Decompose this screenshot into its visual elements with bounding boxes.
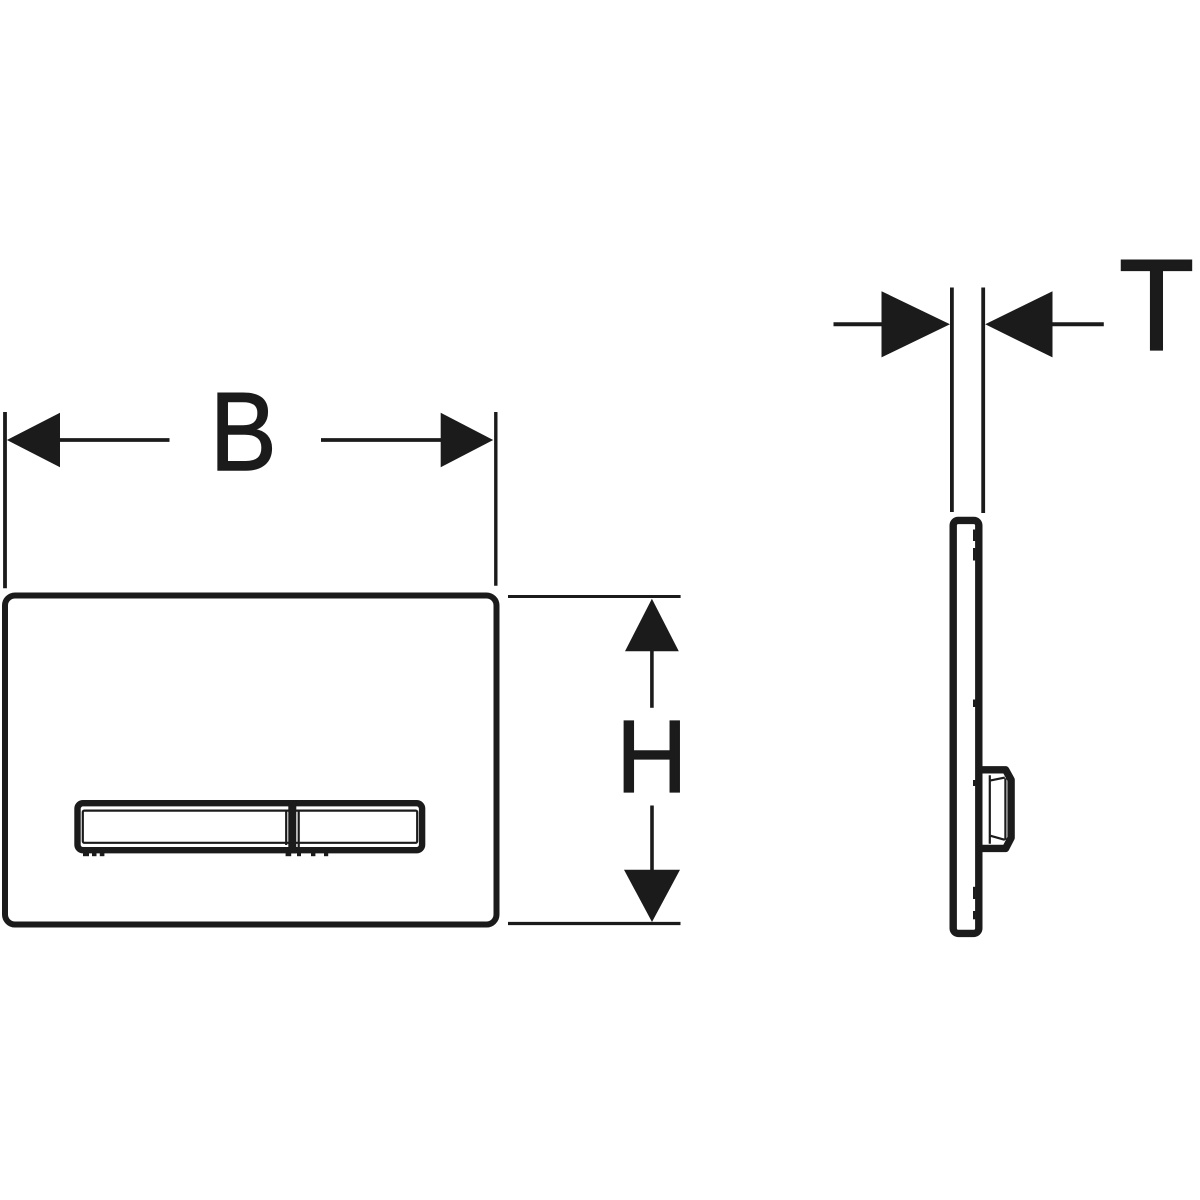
svg-text:H: H <box>616 700 687 814</box>
svg-text:B: B <box>210 370 277 494</box>
svg-text:T: T <box>1119 232 1194 378</box>
